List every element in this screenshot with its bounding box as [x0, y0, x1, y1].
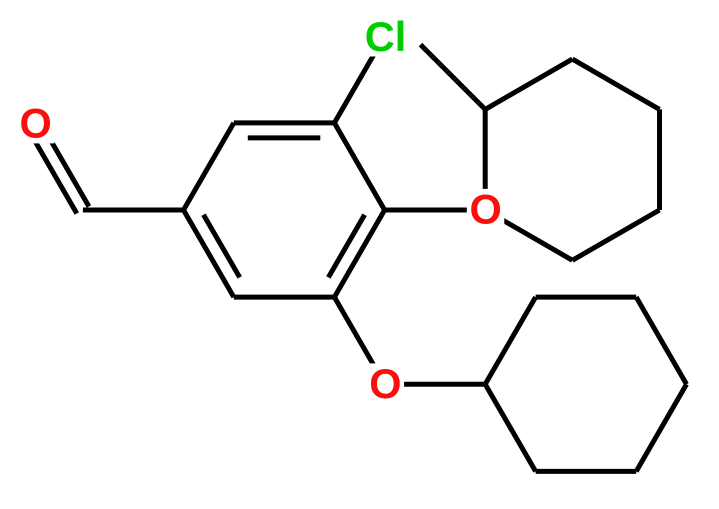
bond C5-O3: [334, 297, 384, 384]
top cyclohexyl edge A-B: [485, 59, 572, 109]
svg-text:Cl: Cl: [365, 13, 407, 60]
bond C3-Cl: [334, 36, 384, 123]
bottom cyclohexyl edge H-I: [536, 295, 637, 300]
bond C7-C1 (CHO to ring): [83, 208, 184, 213]
atom label O3 (ether oxygen): [367, 363, 405, 403]
bond A-CH3 (methyl, points up-left): [421, 45, 486, 110]
top cyclohexyl edge E-F (F under O2 label): [485, 210, 572, 260]
aromatic inner line C2=C3: [248, 135, 320, 140]
top cyclohexyl edge C-D: [657, 109, 662, 210]
bottom cyclohexyl edge I-J: [636, 297, 686, 384]
benzene edge C5-C6: [234, 295, 335, 300]
bond C4-O2: [385, 208, 486, 213]
bottom cyclohexyl edge G-H: [485, 297, 535, 384]
benzene edge C4-C5: [334, 210, 384, 297]
svg-text:O: O: [19, 100, 51, 147]
benzene edge C2-C3: [234, 120, 335, 125]
bottom cyclohexyl edge K-M: [536, 469, 637, 474]
top cyclohexyl edge B-C: [572, 59, 659, 109]
svg-text:O: O: [369, 360, 401, 407]
aromatic inner line C4=C5: [328, 215, 364, 278]
aromatic inner line C6=C1: [204, 215, 240, 278]
benzene edge C6-C1: [184, 210, 234, 297]
aldehyde C=O double bond (O1=C7): [27, 126, 77, 213]
atom label O2 (ether oxygen): [467, 189, 505, 229]
bond O2-A (vertical, overlaps ring edge F-A): [483, 109, 488, 210]
top cyclohexyl edge D-E: [572, 210, 659, 260]
atom label Cl (chlorine): [363, 16, 407, 56]
bond O3-G (horizontal to bottom cyclohexyl): [385, 382, 486, 387]
benzene edge C3-C4: [334, 123, 384, 210]
atom label O1 (aldehyde oxygen): [17, 103, 55, 143]
benzene edge C1-C2: [184, 123, 234, 210]
svg-text:O: O: [469, 186, 501, 233]
bottom cyclohexyl edge J-K: [636, 384, 686, 471]
bottom cyclohexyl edge M-G: [485, 384, 535, 471]
